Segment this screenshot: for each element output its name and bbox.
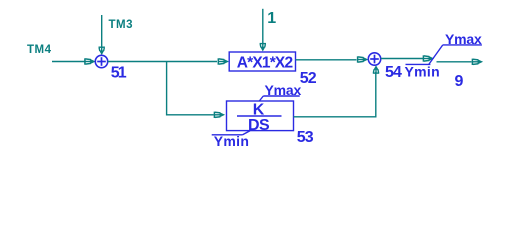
limiter Ymin bar [406, 63, 431, 65]
wire TM4 input [52, 61, 86, 63]
wire multiplier to summer 54 [296, 59, 357, 61]
svg-text:A*X1*X2: A*X1*X2 [237, 54, 293, 71]
arrowhead input 1 into multiplier top [260, 44, 266, 52]
wire limiter to output [437, 61, 472, 63]
arrowhead into multiplier block [218, 58, 229, 64]
block A*X1*X2 (multiplier U52) [229, 52, 295, 71]
svg-text:52: 52 [300, 70, 317, 87]
arrowhead TM3 into summer 51 [99, 47, 105, 55]
svg-text:DS: DS [248, 117, 270, 134]
svg-text:Ymin: Ymin [214, 133, 249, 149]
summing junction 51 [95, 55, 107, 67]
arrowhead TM4 into summer 51 [85, 58, 96, 64]
arrowhead into K/DS block [214, 112, 225, 118]
svg-text:51: 51 [111, 65, 127, 82]
arrowhead into limiter [423, 55, 434, 61]
limiter diagonal [429, 45, 443, 65]
wire TM3 drop [101, 15, 103, 48]
svg-text:Ymin: Ymin [405, 64, 440, 80]
svg-text:54: 54 [385, 64, 402, 81]
summing junction 54 [368, 53, 380, 65]
svg-text:Ymax: Ymax [445, 31, 482, 47]
arrowhead into summer 54 [358, 56, 369, 62]
svg-text:9: 9 [455, 73, 464, 90]
fraction line [237, 115, 282, 117]
wire input 1 drop [262, 9, 264, 45]
svg-text:TM3: TM3 [109, 19, 134, 31]
limiter Ymax bar [443, 44, 482, 46]
wire K/DS output feedback to summer 54 [294, 72, 376, 117]
K/DS Ymin diagonal [243, 131, 250, 135]
wire summer 54 to limiter [381, 58, 423, 60]
arrowhead output [472, 59, 483, 65]
wire branch from node 51 line down to K/DS [167, 62, 214, 115]
K/DS Ymax bar [263, 95, 299, 97]
K/DS Ymax diagonal [259, 96, 263, 101]
K/DS Ymin bar [212, 134, 243, 136]
arrowhead feedback into summer 54 bottom [373, 65, 379, 73]
wire summer 51 to multiplier block [108, 61, 217, 63]
svg-text:53: 53 [297, 129, 314, 146]
block K/DS (integrator 53) [227, 101, 294, 131]
svg-text:1: 1 [267, 10, 276, 27]
svg-text:TM4: TM4 [27, 44, 52, 56]
svg-text:Ymax: Ymax [265, 82, 302, 98]
